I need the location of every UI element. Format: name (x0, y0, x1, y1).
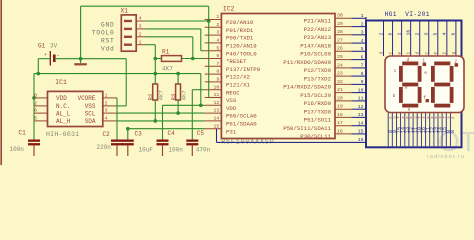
IC2 pin 26 stub (335, 50, 352, 52)
svg-text:24: 24 (337, 62, 343, 68)
HG1 top pin 2 (419, 22, 421, 57)
svg-text:4: 4 (442, 33, 448, 36)
svg-text:20: 20 (337, 95, 343, 101)
IC2 pin 2 stub (205, 26, 222, 28)
HG1 bottom pin 16 (420, 113, 422, 147)
svg-text:p: p (452, 116, 456, 118)
display digit 2 (431, 62, 454, 108)
svg-text:19: 19 (337, 104, 343, 110)
svg-text:P121/X1: P121/X1 (226, 82, 250, 89)
node R1 left junction (154, 57, 158, 61)
svg-text:14: 14 (214, 116, 220, 122)
svg-text:100n: 100n (10, 146, 25, 153)
svg-text:2: 2 (378, 33, 384, 36)
svg-text:1: 1 (422, 59, 425, 64)
IC2 pin 14 stub (205, 120, 222, 122)
indicator square 2 (455, 63, 459, 66)
wire C3 drop (127, 129, 129, 140)
svg-text:6: 6 (387, 33, 393, 36)
svg-text:17: 17 (337, 120, 343, 126)
svg-text:P31: P31 (226, 128, 237, 135)
HG1 top pin 1 (401, 22, 403, 57)
svg-text:4K7: 4K7 (181, 90, 188, 100)
IC2 pin 28 stub (335, 34, 352, 36)
IC1 pin 2 stub (34, 105, 48, 107)
svg-text:d: d (407, 57, 410, 63)
svg-text:4: 4 (105, 116, 108, 122)
IC2 pin 13 stub (205, 112, 222, 114)
svg-text:P147/AN18: P147/AN18 (300, 42, 331, 49)
IC2 pin 30 stub (335, 17, 352, 19)
svg-text:2: 2 (454, 59, 457, 64)
HG1 bottom pin 8 (449, 113, 451, 147)
svg-text:SDA: SDA (85, 118, 96, 125)
HG1 top pin 4 (446, 22, 448, 57)
HG1 top pin 5 (437, 22, 439, 57)
wire LCD net 3 (352, 34, 367, 36)
wire R2 bottom (154, 100, 156, 121)
svg-text:10uF: 10uF (139, 146, 154, 153)
svg-text:G1: G1 (38, 43, 46, 50)
wire LCD net 8 (352, 75, 367, 77)
wire VCORE to C2 (116, 98, 118, 140)
svg-text:a: a (408, 108, 411, 113)
wire R1 left (155, 58, 161, 60)
svg-text:3: 3 (105, 108, 108, 114)
svg-text:P51/SO11: P51/SO11 (304, 117, 332, 124)
svg-text:P17/TXD0: P17/TXD0 (304, 108, 332, 115)
svg-text:11: 11 (358, 96, 364, 102)
IC2 pin 25 stub (335, 59, 352, 61)
IC1 pin 2 stub (103, 105, 117, 107)
svg-text:10: 10 (358, 87, 364, 93)
HG1 bottom pin 11 (412, 113, 414, 147)
HG1 bottom pin 15 (441, 113, 443, 147)
svg-text:GND: GND (101, 22, 115, 29)
svg-text:C2: C2 (103, 131, 111, 138)
IC2 pin 18 stub (335, 116, 352, 118)
connector X1 pin 1 (136, 44, 145, 46)
svg-text:3: 3 (361, 30, 364, 36)
svg-text:12: 12 (214, 100, 220, 106)
IC2 pin 4 stub (205, 42, 222, 44)
svg-text:+: + (44, 53, 47, 58)
svg-text:P14/RXD2/SDA20: P14/RXD2/SDA20 (283, 84, 331, 91)
IC2 pin 11 stub (205, 97, 222, 99)
svg-text:P22/AN12: P22/AN12 (304, 26, 332, 33)
svg-text:28: 28 (337, 29, 343, 35)
svg-text:P60/SCLA0: P60/SCLA0 (226, 113, 257, 120)
node VDD battery junction (37, 72, 41, 76)
svg-text:16: 16 (358, 137, 364, 143)
svg-text:26: 26 (337, 46, 343, 52)
display HG1 glass (385, 56, 464, 113)
wire X1 TOOL0 (146, 28, 201, 30)
svg-text:470n: 470n (196, 146, 211, 153)
svg-text:P30/SCL11: P30/SCL11 (300, 133, 331, 140)
svg-text:P40/TOOL0: P40/TOOL0 (226, 50, 257, 57)
IC2 pin 24 stub (335, 67, 352, 69)
node GND X1 junction (207, 19, 211, 23)
display digit 1 (399, 62, 422, 108)
svg-text:220n: 220n (97, 144, 112, 151)
wire VDD rail (34, 73, 201, 75)
svg-text:6: 6 (216, 53, 219, 59)
svg-text:X1: X1 (121, 8, 129, 15)
svg-text:P01/RXD1: P01/RXD1 (226, 27, 254, 34)
svg-text:4: 4 (139, 16, 142, 22)
wire LCD net 1 (352, 17, 367, 19)
svg-text:P11/RXD0/SDA00: P11/RXD0/SDA00 (283, 59, 331, 66)
svg-text:2: 2 (139, 32, 142, 38)
wire VSS to IC2 pin11 (209, 97, 222, 99)
wire GND left vertical (80, 6, 82, 59)
wire LCD net 13 (352, 116, 367, 118)
HG1 top pin 6 (392, 22, 394, 57)
svg-text:10: 10 (214, 84, 220, 90)
svg-text:IC1: IC1 (55, 79, 67, 86)
svg-text:AL_L: AL_L (56, 110, 71, 117)
svg-text:7: 7 (216, 61, 219, 67)
node R3 SCL junction (176, 111, 180, 115)
wire SCL line (117, 112, 205, 114)
wire VDD right drop (200, 74, 202, 106)
svg-text:16: 16 (337, 128, 343, 134)
svg-text:22: 22 (337, 79, 343, 85)
wire LCD net 4 (352, 42, 367, 44)
capacitor C3 (122, 140, 134, 142)
IC1 pin 4 stub (103, 120, 117, 122)
wire GND top rail (81, 5, 209, 7)
IC2 pin 9 stub (205, 81, 222, 83)
svg-text:2: 2 (216, 22, 219, 28)
svg-text:VSS: VSS (85, 103, 96, 110)
svg-text:5: 5 (361, 46, 364, 52)
svg-text:18: 18 (337, 112, 343, 118)
wire VDD to IC2 pin12 (201, 104, 205, 106)
svg-text:8: 8 (450, 130, 456, 133)
svg-text:1: 1 (139, 39, 142, 45)
HG1 bottom pin 13 (404, 113, 406, 147)
svg-text:5: 5 (433, 33, 439, 36)
node VDD rail R2 junction (154, 72, 158, 76)
svg-text:9: 9 (216, 77, 219, 83)
node battery ground junction (79, 57, 83, 61)
svg-text:TOOL0: TOOL0 (92, 29, 115, 36)
wire X1 RST (146, 36, 193, 38)
svg-text:14: 14 (358, 121, 364, 127)
wire X1 GND (146, 20, 209, 22)
svg-text:R1: R1 (162, 49, 170, 56)
svg-text:3V: 3V (50, 43, 58, 50)
svg-text:8: 8 (361, 71, 364, 77)
capacitor C4 (157, 140, 169, 142)
wire LCD net 7 (352, 67, 367, 69)
wire C4 line (163, 104, 201, 106)
svg-text:4K7: 4K7 (162, 66, 173, 73)
resistor R1 body (162, 56, 182, 62)
svg-text:AL_H: AL_H (56, 118, 71, 125)
svg-text:29: 29 (337, 21, 343, 27)
svg-text:P16/RXD0: P16/RXD0 (304, 100, 332, 107)
IC1 pin 5 stub (34, 120, 48, 122)
svg-text:1: 1 (105, 93, 108, 99)
svg-text:13: 13 (358, 112, 364, 118)
svg-text:100n: 100n (168, 146, 183, 153)
resistor R3 body (176, 84, 181, 100)
HG1 top pin 16 (410, 22, 412, 57)
IC2 pin 19 stub (335, 108, 352, 110)
wire R3 top (177, 74, 179, 84)
wire LCD net 2 (352, 26, 367, 28)
node VDD IC1 pin8 junction (32, 96, 36, 100)
svg-text:8: 8 (34, 93, 37, 99)
svg-text:g: g (405, 85, 408, 90)
svg-text:9: 9 (361, 79, 364, 85)
ground symbol (80, 59, 82, 64)
wire LCD net 14 (352, 125, 367, 127)
svg-text:12: 12 (358, 104, 364, 110)
capacitor C2 (111, 140, 123, 142)
svg-text:1: 1 (216, 14, 219, 20)
svg-text:P50/SI11/SDA11: P50/SI11/SDA11 (283, 125, 331, 132)
svg-text:15: 15 (358, 129, 364, 135)
svg-text:Vdd: Vdd (101, 45, 115, 52)
capacitor C1 (28, 140, 40, 142)
svg-text:VDD: VDD (226, 105, 237, 112)
svg-text:P13/TXD2: P13/TXD2 (304, 75, 332, 82)
wire X1 Vdd (146, 44, 156, 46)
node VDD IC2 junction (199, 104, 203, 108)
IC2 pin 7 stub (205, 65, 222, 67)
wire VDD left drop (33, 74, 35, 140)
display HG1 body (366, 21, 462, 148)
wire battery left (38, 58, 50, 60)
svg-text:1: 1 (361, 13, 364, 19)
wire LCD net 11 (352, 100, 367, 102)
capacitor C5 (186, 140, 198, 142)
IC2 pin 8 stub (205, 73, 222, 75)
IC1 pin 1 stub (103, 97, 117, 99)
wire GND right vertical (208, 6, 210, 97)
svg-text:REGC: REGC (226, 89, 240, 96)
svg-text:P120/AN19: P120/AN19 (226, 43, 257, 50)
svg-text:*RESET: *RESET (226, 58, 247, 65)
wire R3 bottom (177, 100, 179, 113)
node R1 right junction (191, 57, 195, 61)
svg-text:-: - (57, 53, 60, 59)
mcu IC2 body (221, 14, 335, 139)
svg-text:27: 27 (337, 38, 343, 44)
wire SDA line (117, 120, 205, 122)
wire LCD net 9 (352, 83, 367, 85)
wire REGC to C5 (192, 89, 204, 91)
svg-text:P137/INTP0: P137/INTP0 (226, 66, 261, 73)
IC2 pin 27 stub (335, 42, 352, 44)
svg-text:c: c (394, 69, 397, 74)
svg-text:VDD: VDD (56, 95, 67, 102)
svg-text:8: 8 (216, 69, 219, 75)
svg-text:3: 3 (424, 33, 430, 36)
wire battery right (54, 58, 126, 60)
svg-text:4K7: 4K7 (158, 90, 165, 100)
IC2 pin 21 stub (335, 92, 352, 94)
wire LCD net 6 (352, 59, 367, 61)
svg-text:P122/X2: P122/X2 (226, 74, 250, 81)
IC2 pin 15 stub (205, 128, 222, 130)
wire LCD net 5 (352, 50, 367, 52)
wire VSS right (117, 105, 126, 107)
node R2 SDA junction (154, 119, 158, 123)
IC2 pin 12 stub (205, 104, 222, 106)
svg-text:N.C.: N.C. (56, 103, 70, 110)
HG1 bottom pin 13 (433, 113, 435, 147)
svg-text:1: 1 (396, 33, 402, 36)
IC2 pin 1 stub (205, 19, 222, 21)
svg-text:3: 3 (216, 30, 219, 36)
svg-text:P00/TXD1: P00/TXD1 (226, 35, 254, 42)
HG1 bottom pin 14 (437, 113, 439, 147)
svg-text:SCL: SCL (85, 110, 96, 117)
svg-text:6: 6 (34, 108, 37, 114)
IC2 pin 23 stub (335, 75, 352, 77)
svg-text:RST: RST (101, 37, 115, 44)
decimal point square (426, 99, 429, 102)
wire VDD drop to R2 (154, 59, 156, 85)
svg-text:P12/TXD0: P12/TXD0 (304, 67, 332, 74)
svg-text:2: 2 (105, 101, 108, 107)
svg-text:23: 23 (337, 71, 343, 77)
wire P31 line (128, 128, 205, 130)
HG1 bottom pin 8 (387, 113, 389, 147)
HG1 bottom pin 9 (391, 113, 393, 147)
svg-text:4: 4 (361, 38, 364, 44)
IC2 pin 5 stub (205, 50, 222, 52)
HG1 bottom pin 9 (445, 113, 447, 147)
svg-text:P20/AN10: P20/AN10 (226, 19, 254, 26)
IC2 pin 22 stub (335, 83, 352, 85)
IC2 pin 29 stub (335, 26, 352, 28)
svg-text:3: 3 (139, 24, 142, 30)
svg-text:HIH-6031: HIH-6031 (46, 131, 79, 138)
IC2 pin 6 stub (205, 58, 222, 60)
connector X1 pin 4 (136, 20, 145, 22)
IC1 pin 3 stub (103, 112, 117, 114)
IC2 pin 16 stub (335, 133, 352, 135)
resistor R2 body (153, 84, 158, 100)
wire R1 right (182, 58, 205, 60)
connector X1 pin 2 (136, 36, 145, 38)
IC2 pin 10 stub (205, 89, 222, 91)
svg-text:5: 5 (216, 45, 219, 51)
indicator square 1 (423, 63, 427, 67)
connector X1 contact 1 (124, 44, 132, 46)
wire LCD net 10 (352, 92, 367, 94)
svg-text:2: 2 (361, 21, 364, 27)
wire C4 drop (162, 105, 164, 139)
HG1 top pin 2 (383, 22, 385, 57)
connector X1 contact 2 (124, 36, 132, 38)
svg-text:13: 13 (214, 108, 220, 114)
IC1 pin 6 stub (34, 112, 48, 114)
wire LCD net 16 (216, 129, 218, 143)
connector X1 contact 3 (124, 28, 132, 30)
HG1 bottom pin 11 (425, 113, 427, 147)
battery G1 positive plate (49, 51, 51, 66)
sensor IC1 body (48, 91, 103, 126)
svg-text:C5: C5 (197, 130, 205, 137)
svg-text:7: 7 (361, 63, 364, 69)
svg-text:16: 16 (405, 30, 411, 36)
connector X1 body (121, 15, 136, 51)
wire LCD net 12 (352, 108, 367, 110)
svg-text:C4: C4 (168, 130, 176, 137)
wire LCD net 15 (352, 133, 367, 135)
svg-text:b: b (393, 93, 396, 99)
battery G1 negative plate (53, 55, 56, 63)
svg-text:radiokot.ru: radiokot.ru (427, 154, 465, 160)
svg-text:2: 2 (34, 101, 37, 107)
HG1 bottom pin 15 (396, 113, 398, 147)
IC2 pin 17 stub (335, 125, 352, 127)
svg-text:C1: C1 (19, 130, 27, 137)
svg-text:21: 21 (337, 87, 343, 93)
svg-text:4: 4 (216, 38, 219, 44)
HG1 top pin 6 (455, 22, 457, 57)
wire battery plus drop (37, 59, 39, 74)
svg-text:P21/AN11: P21/AN11 (304, 18, 332, 25)
HG1 bottom pin 12 (408, 113, 410, 147)
IC2 pin 20 stub (335, 100, 352, 102)
IC2 pin 3 stub (205, 34, 222, 36)
svg-text:11: 11 (214, 92, 220, 98)
svg-text:VSS: VSS (226, 97, 237, 104)
connector X1 contact 4 (124, 20, 132, 22)
HG1 bottom pin 10 (416, 113, 418, 147)
HG1 bottom pin 14 (400, 113, 402, 147)
svg-text:2: 2 (415, 33, 421, 36)
svg-text:HG1 VI-201: HG1 VI-201 (385, 11, 430, 18)
svg-text:e: e (424, 71, 427, 76)
svg-text:C3: C3 (135, 130, 143, 137)
svg-text:P61/SDAA0: P61/SDAA0 (226, 121, 257, 128)
connector X1 pin 3 (136, 28, 145, 30)
HG1 top pin 3 (428, 22, 430, 57)
svg-text:6: 6 (361, 54, 364, 60)
svg-text:IC2: IC2 (223, 6, 235, 13)
svg-text:P15/SCL20: P15/SCL20 (300, 92, 331, 99)
svg-text:6: 6 (451, 33, 457, 36)
svg-text:15: 15 (214, 123, 220, 129)
HG1 bottom pin 12 (429, 113, 431, 147)
node P31 C3 junction (126, 127, 130, 131)
IC1 pin 8 stub (34, 97, 48, 99)
svg-text:VCORE: VCORE (77, 95, 95, 102)
svg-text:25: 25 (337, 54, 343, 60)
node VDD rail R3 junction (176, 72, 180, 76)
svg-text:P10/SCL00: P10/SCL00 (300, 51, 331, 58)
svg-text:P23/AN13: P23/AN13 (304, 34, 332, 41)
frame border left (0, 0, 2, 165)
svg-text:30: 30 (337, 13, 343, 19)
svg-text:5: 5 (34, 116, 37, 122)
